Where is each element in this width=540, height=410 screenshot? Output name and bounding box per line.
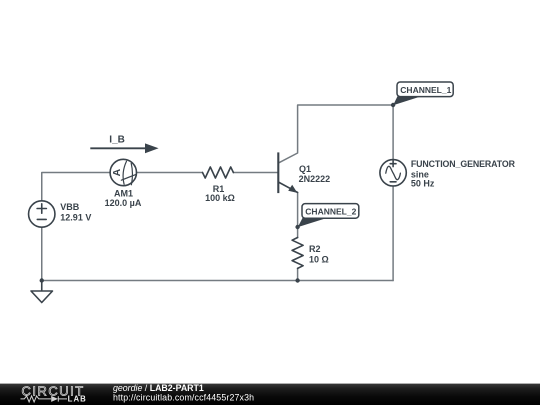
svg-text:2N2222: 2N2222: [299, 174, 331, 184]
function generator: [380, 160, 406, 186]
node CHANNEL_1 junction: [391, 103, 395, 107]
wire emitter down through node to R2: [297, 192, 299, 237]
wire collector up and top wire: [279, 105, 393, 163]
svg-text:http://circuitlab.com/ccf4455r: http://circuitlab.com/ccf4455r27x3h: [113, 392, 254, 402]
wire left segment from corner to ammeter: [42, 173, 110, 201]
wire ammeter to R1: [137, 172, 203, 174]
svg-text:50 Hz: 50 Hz: [411, 179, 435, 189]
ground lead: [41, 281, 43, 292]
wire R1 to Q1 base: [233, 172, 277, 174]
svg-text:Q1: Q1: [299, 164, 311, 174]
svg-text:geordie / LAB2-PART1: geordie / LAB2-PART1: [113, 383, 204, 393]
wire function generator bottom: [392, 186, 394, 281]
node CHANNEL_2 junction: [295, 225, 299, 229]
ground: [31, 291, 53, 303]
svg-text:I_B: I_B: [109, 135, 125, 146]
footer bar: [0, 384, 540, 405]
svg-text:CHANNEL_2: CHANNEL_2: [305, 206, 356, 216]
svg-text:A: A: [112, 168, 123, 176]
bottom wire: [42, 280, 393, 282]
voltage source VBB: [29, 201, 55, 227]
label CHANNEL_1: [393, 82, 453, 105]
resistor R2: [292, 238, 303, 269]
label CHANNEL_2: [298, 204, 359, 228]
svg-text:120.0 µA: 120.0 µA: [105, 198, 142, 208]
resistor R1: [203, 167, 234, 178]
ammeter AM1: [110, 159, 136, 185]
svg-text:CHANNEL_1: CHANNEL_1: [400, 85, 451, 95]
CircuitLab logo: [21, 383, 87, 403]
wire function generator top: [392, 105, 394, 160]
svg-text:VBB: VBB: [60, 202, 80, 212]
current arrow I_B: [90, 135, 158, 154]
svg-text:10 Ω: 10 Ω: [309, 254, 329, 264]
svg-text:FUNCTION_GENERATOR: FUNCTION_GENERATOR: [411, 159, 516, 169]
node ground junction: [40, 278, 44, 282]
wire VBB to ground node: [41, 227, 43, 280]
svg-text:12.91 V: 12.91 V: [60, 212, 91, 222]
svg-text:R2: R2: [309, 244, 321, 254]
transistor Q1: [278, 152, 297, 193]
svg-text:100 kΩ: 100 kΩ: [205, 193, 235, 203]
node R2 bottom junction: [295, 278, 299, 282]
wire R2 to bottom: [297, 268, 299, 280]
svg-text:LAB: LAB: [68, 394, 87, 403]
